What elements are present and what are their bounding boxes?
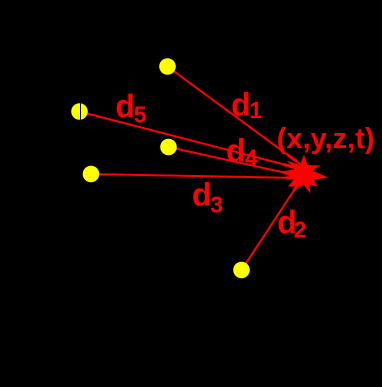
wire d5 line from satellite S5 to receiver: [80, 112, 299, 169]
svg-text:2: 2: [294, 217, 307, 243]
wire d2 line from satellite S2 to receiver: [242, 185, 298, 270]
wire d3 line from satellite S3 to receiver: [91, 174, 300, 178]
satellite S1 (top): [159, 58, 176, 75]
wire d4 line from satellite S4 to receiver: [169, 147, 303, 177]
receiver starburst arm W4 (d4 merge): [284, 173, 298, 176]
svg-text:d: d: [226, 132, 246, 168]
satellite S4 (middle): [160, 139, 177, 156]
label d5: [115, 88, 146, 128]
svg-text:d: d: [192, 176, 212, 212]
receiver starburst arm W2 (d2 merge): [294, 185, 299, 191]
wire d1 line from satellite S1 to receiver: [168, 67, 303, 166]
label d4: [226, 132, 258, 170]
label d1: [231, 86, 262, 122]
receiver starburst arm W3 (d3 merge): [286, 176, 298, 179]
satellite S5 (upper left): [71, 103, 88, 120]
receiver starburst at (x,y,z,t): [282, 155, 329, 194]
satellite S2 (bottom): [233, 262, 250, 279]
svg-text:3: 3: [210, 192, 223, 218]
receiver starburst arm W5 (d5 merge): [284, 165, 298, 169]
label d3: [192, 176, 223, 217]
receiver starburst arm W1 (d1 merge): [288, 155, 297, 162]
satellite S3 (lower left): [83, 166, 100, 183]
label d2: [277, 204, 306, 243]
svg-text:1: 1: [249, 97, 262, 123]
svg-text:(x,y,z,t): (x,y,z,t): [277, 123, 375, 155]
svg-text:5: 5: [134, 102, 147, 128]
tick mark on satellite S5: [80, 103, 82, 120]
svg-text:d: d: [231, 86, 251, 122]
svg-text:d: d: [115, 88, 135, 124]
svg-text:4: 4: [245, 145, 258, 171]
